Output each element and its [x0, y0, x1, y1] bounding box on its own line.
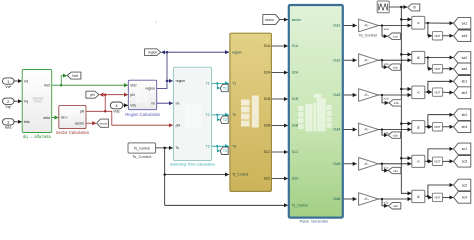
- svg-text:S2C: S2C: [264, 177, 271, 181]
- goto tag sa3: [454, 30, 471, 42]
- svg-text:-K-: -K-: [364, 162, 370, 166]
- wire comparator out stub row 6: [425, 195, 428, 197]
- goto tag sb3: [454, 87, 471, 99]
- svg-text:Switching Time Calculation: Switching Time Calculation: [170, 163, 215, 167]
- junction comparator out row 5: [427, 160, 429, 162]
- svg-text:sector: sector: [75, 121, 85, 125]
- wire gain to goto tag s2b: [382, 130, 388, 136]
- logical operator NOT row 3: [432, 88, 442, 96]
- wire comparator to goto sa1: [425, 22, 453, 24]
- wire comparator to goto sb1: [428, 81, 453, 92]
- junction Ts mid: [163, 173, 166, 176]
- svg-text:s1a: s1a: [393, 35, 398, 39]
- wire inport1 to dq: [14, 80, 22, 82]
- svg-text:T3: T3: [232, 144, 236, 148]
- wire comparator to goto sa2: [425, 57, 453, 59]
- wire comparator to NOT row 5: [428, 160, 432, 162]
- svg-text:Pulse_Generator: Pulse_Generator: [300, 220, 329, 223]
- junction carrier row 4: [400, 122, 403, 125]
- svg-text:nn: nn: [176, 101, 180, 105]
- svg-text:sc3: sc3: [462, 160, 468, 164]
- svg-text:sb1: sb1: [462, 80, 468, 84]
- wire gain output row 1: [378, 25, 411, 27]
- goto tag pN (mirrored): [86, 91, 99, 98]
- inport 1 Vd*: [3, 78, 15, 89]
- svg-text:-K-: -K-: [364, 197, 370, 201]
- svg-text:-K-: -K-: [364, 24, 370, 28]
- junction T1: [216, 82, 218, 84]
- wire S2C: [272, 178, 288, 180]
- wire sector to goto tag: [86, 122, 96, 124]
- svg-text:sb2: sb2: [462, 113, 468, 117]
- svg-text:sector: sector: [292, 18, 302, 22]
- svg-text:sc4: sc4: [462, 196, 468, 200]
- svg-text:Out3: Out3: [333, 93, 340, 97]
- svg-text:teta: teta: [5, 126, 12, 130]
- subsystem modulation (tan): [230, 33, 272, 191]
- svg-text:S1A: S1A: [292, 44, 299, 48]
- svg-text:Ts_Control: Ts_Control: [132, 154, 151, 159]
- junction comparator out row 4: [427, 126, 429, 128]
- svg-text:<: <: [417, 20, 420, 25]
- subsystem Switching Time Calculation: [170, 67, 215, 167]
- svg-text:Vref: Vref: [44, 83, 50, 87]
- wire gain to goto tag s1a: [382, 26, 388, 37]
- svg-text:S2A: S2A: [264, 71, 271, 75]
- relational operator row 5: [412, 155, 425, 167]
- junction T3: [216, 145, 218, 147]
- svg-text:s1a: s1a: [384, 27, 389, 31]
- wire carrier to comparator row 2: [401, 53, 411, 55]
- goto tag region (mirrored): [145, 49, 161, 56]
- goto tag sb2: [454, 109, 471, 121]
- svg-text:NOT: NOT: [434, 125, 440, 129]
- gain block -K- row 4: [359, 123, 379, 136]
- junction gain row 1: [381, 24, 383, 26]
- wire T1 to goto: [217, 83, 220, 88]
- wire NOT to goto sc3: [443, 160, 454, 162]
- junction gain row 4: [381, 128, 383, 130]
- svg-text:S1C: S1C: [264, 150, 271, 154]
- relational operator row 4: [412, 121, 425, 134]
- wire carrier to comparator row 3: [401, 88, 411, 90]
- wire comparator to NOT row 3: [428, 91, 432, 93]
- svg-text:s1b: s1b: [394, 101, 399, 105]
- svg-text:region: region: [176, 79, 186, 83]
- wire gain output row 5: [378, 163, 411, 165]
- svg-text:s2c: s2c: [393, 204, 398, 208]
- svg-text:T1: T1: [223, 86, 227, 90]
- svg-text:sector: sector: [265, 18, 275, 22]
- logical operator NOT row 6: [432, 193, 442, 201]
- wire inport2 to dq: [14, 100, 22, 102]
- svg-text:S2B: S2B: [264, 124, 271, 128]
- svg-text:T3: T3: [206, 144, 210, 148]
- goto tag T2: [220, 116, 228, 123]
- svg-text:Vdc: Vdc: [113, 110, 120, 114]
- junction region top: [166, 51, 169, 54]
- wire S1C: [272, 151, 288, 153]
- svg-text:deta: deta: [43, 116, 50, 120]
- svg-text:Vq: Vq: [24, 100, 28, 104]
- wire gain output row 3: [378, 94, 411, 96]
- svg-text:pN: pN: [176, 123, 181, 127]
- logical operator NOT row 1: [432, 32, 442, 40]
- junction gain row 3: [381, 94, 383, 96]
- junction pN top: [104, 93, 107, 96]
- goto tag s2c: [388, 203, 400, 209]
- svg-text:sa2: sa2: [462, 56, 468, 60]
- subsystem Region Calculation: [125, 80, 161, 117]
- wire gain to goto tag s1c: [382, 164, 388, 171]
- gain block -K- row 5: [359, 158, 379, 171]
- svg-text:T1: T1: [206, 82, 210, 86]
- svg-text:region: region: [232, 50, 242, 54]
- wire comparator out stub row 5: [425, 160, 428, 162]
- junction pN: [104, 110, 107, 113]
- junction triangle line top: [400, 6, 403, 9]
- wire Vdc: [123, 104, 128, 106]
- junction gain row 6: [381, 198, 383, 200]
- svg-text:Ts_Control: Ts_Control: [359, 34, 377, 38]
- wire Out3 to gain: [344, 94, 357, 96]
- wire Out5 to gain: [344, 163, 357, 165]
- junction comparator out row 6: [427, 195, 429, 197]
- inport 4 Vdc: [110, 102, 123, 114]
- svg-text:s2b: s2b: [393, 133, 398, 137]
- svg-text:dq → alfa beta: dq → alfa beta: [23, 134, 52, 139]
- svg-text:T2: T2: [206, 113, 210, 117]
- relational operator row 1: [412, 16, 425, 29]
- wire gain output row 6: [378, 198, 411, 200]
- goto tag sc3: [454, 156, 471, 168]
- junction carrier row 5: [400, 157, 403, 160]
- wire pN to switching time calc: [105, 111, 173, 125]
- wire comparator to goto sb2: [428, 115, 453, 127]
- svg-text:Ts_Control: Ts_Control: [292, 204, 308, 208]
- svg-text:<: <: [417, 90, 420, 95]
- goto tag sc2: [454, 179, 471, 191]
- svg-text:S2B: S2B: [292, 124, 299, 128]
- wire NOT to goto sc4: [443, 196, 454, 198]
- wire NOT to goto sa4: [443, 68, 454, 70]
- wire comparator to NOT row 4: [428, 126, 432, 128]
- svg-text:NOT: NOT: [434, 196, 440, 200]
- goto tag s1c: [388, 167, 400, 173]
- svg-text:Region Calculation: Region Calculation: [125, 112, 161, 117]
- svg-text:tri: tri: [413, 6, 416, 10]
- svg-text:sa4: sa4: [462, 67, 468, 71]
- svg-text:s2b: s2b: [384, 131, 389, 135]
- wire S2A: [272, 72, 288, 74]
- svg-text:T1: T1: [232, 82, 236, 86]
- wire S1A: [272, 45, 288, 47]
- junction comparator out row 3: [427, 91, 429, 93]
- wire Vref to goto tag: [61, 76, 67, 86]
- logical operator NOT row 2: [432, 65, 442, 73]
- wire Ts_Control to modulation block: [165, 174, 229, 176]
- wire pN to region calc: [105, 94, 128, 96]
- goto tag s1b: [389, 100, 401, 106]
- svg-text:s1c: s1c: [393, 169, 398, 173]
- svg-text:sc2: sc2: [462, 183, 468, 187]
- subsystem dq to alfa beta: [22, 70, 52, 140]
- svg-text:pN: pN: [90, 93, 95, 97]
- goto tag s2a: [388, 64, 400, 70]
- svg-text:s2a: s2a: [384, 62, 389, 66]
- wire nn: [157, 102, 173, 104]
- goto tag sa4: [454, 63, 471, 75]
- wire comparator to NOT row 2: [428, 58, 432, 69]
- wire comparator out stub row 3: [425, 91, 428, 93]
- relational operator row 6: [412, 190, 425, 202]
- wire comparator out stub row 4: [425, 126, 428, 128]
- source block Ts_Control: [128, 143, 156, 159]
- wire comparator to NOT row 6: [428, 196, 432, 197]
- junction Ts: [163, 147, 166, 150]
- svg-text:s1c: s1c: [384, 165, 389, 169]
- wire comparator to NOT row 1: [428, 23, 432, 36]
- wire gain to goto tag s1b: [382, 95, 389, 103]
- wire Out2 to gain: [344, 59, 357, 61]
- gain block -K- row 6: [359, 193, 379, 206]
- wire pN rise: [104, 95, 106, 112]
- svg-text:s2a: s2a: [393, 65, 398, 69]
- wire NOT to goto sa3: [443, 35, 454, 37]
- wire Ts to switching time calc: [156, 147, 173, 149]
- svg-text:<: <: [417, 159, 420, 164]
- svg-text:Ts: Ts: [176, 146, 180, 150]
- goto tag sector: [97, 119, 109, 127]
- wire T2 to goto: [217, 115, 220, 120]
- svg-text:Vref: Vref: [72, 74, 78, 78]
- logical operator NOT row 4: [432, 123, 442, 131]
- goto tag sc4: [454, 192, 471, 204]
- logical operator NOT row 5: [432, 157, 442, 165]
- svg-text:T2: T2: [223, 118, 227, 122]
- svg-text:NOT: NOT: [434, 67, 440, 71]
- svg-text:sc1: sc1: [462, 147, 468, 151]
- svg-text:Out6: Out6: [333, 197, 340, 201]
- wire region output: [157, 52, 167, 88]
- svg-text:Vdc: Vdc: [130, 104, 136, 108]
- junction carrier row 2: [400, 53, 403, 56]
- subsystem Sector Calculation: [56, 105, 90, 135]
- wire T3 to goto: [217, 146, 220, 151]
- wire NOT to goto sb4: [443, 126, 454, 128]
- goto tag s1a: [388, 33, 400, 39]
- goto tag sb1: [454, 76, 471, 88]
- junction carrier row 3: [400, 88, 403, 91]
- wire T2: [212, 114, 229, 116]
- svg-text:S1B: S1B: [292, 97, 299, 101]
- svg-text:NOT: NOT: [434, 90, 440, 94]
- wire region to switching time calc: [167, 80, 173, 82]
- inport 3 teta: [3, 119, 15, 130]
- svg-text:S1B: S1B: [264, 97, 271, 101]
- junction gain row 2: [381, 59, 383, 61]
- wire T1: [212, 82, 229, 84]
- wire comparator to goto sc2: [428, 185, 453, 196]
- svg-text:S1C: S1C: [292, 150, 299, 154]
- wire triangle wave to tri tag: [389, 6, 407, 8]
- wire deta: [52, 117, 59, 119]
- source block triangle wave generator: [377, 1, 389, 13]
- wire region to modulation block: [167, 51, 229, 53]
- wire gain to goto tag s2c: [382, 199, 388, 206]
- wire T3: [212, 145, 229, 147]
- svg-text:nn: nn: [151, 101, 155, 105]
- wire Ts drop: [164, 148, 166, 205]
- wire inport3 to dq: [14, 121, 22, 123]
- from tag sector: [263, 15, 280, 25]
- subsystem pulses (green): [289, 5, 343, 218]
- wire Ts_Control to pulses block: [165, 204, 288, 206]
- wire Out1 to gain: [344, 25, 357, 27]
- wire gain output row 4: [378, 129, 411, 131]
- relational operator row 2: [412, 51, 425, 63]
- junction gain row 5: [381, 163, 383, 165]
- inport 2 Vq*: [3, 98, 15, 109]
- wire S1B: [272, 98, 288, 100]
- speck: [155, 21, 157, 23]
- junction comparator out row 1: [427, 22, 429, 24]
- wire Vref: [52, 84, 128, 86]
- svg-text:Out4: Out4: [333, 128, 340, 132]
- wire region to goto tag: [161, 51, 167, 53]
- svg-text:S2C: S2C: [292, 177, 299, 181]
- goto tag s2b: [388, 132, 400, 138]
- goto tag sb4: [454, 121, 471, 133]
- wire comparator to goto sc1: [428, 149, 453, 161]
- wire carrier to comparator row 4: [401, 123, 411, 125]
- wire Out6 to gain: [344, 198, 357, 200]
- svg-text:Ts_Control: Ts_Control: [232, 173, 248, 177]
- goto tag sc1: [454, 143, 471, 155]
- svg-text:NOT: NOT: [434, 34, 440, 38]
- goto tag Vref: [67, 72, 81, 79]
- wire Out4 to gain: [344, 129, 357, 131]
- svg-text:NOT: NOT: [434, 160, 440, 164]
- wire pN to goto tag: [100, 94, 106, 96]
- wire gain output row 2: [378, 59, 411, 61]
- goto tag sa2: [454, 52, 471, 64]
- goto tag T3: [220, 147, 228, 154]
- svg-text:Sector Calculation: Sector Calculation: [56, 130, 90, 135]
- svg-text:-K-: -K-: [364, 93, 370, 97]
- goto tag T1: [220, 84, 228, 91]
- svg-text:region: region: [145, 87, 155, 91]
- svg-text:sector: sector: [100, 122, 108, 126]
- svg-text:s2c: s2c: [384, 201, 389, 205]
- svg-text:Vref: Vref: [130, 83, 136, 87]
- svg-text:Out5: Out5: [333, 162, 340, 166]
- svg-text:sa1: sa1: [462, 22, 468, 26]
- svg-text:Vd: Vd: [24, 79, 28, 83]
- svg-text:S1A: S1A: [264, 44, 271, 48]
- goto tag sa1: [454, 17, 471, 29]
- goto tag tri: [408, 4, 420, 11]
- svg-text:sa3: sa3: [462, 34, 468, 38]
- svg-text:sb3: sb3: [462, 91, 468, 95]
- junction T2: [216, 114, 218, 116]
- svg-text:Vd*: Vd*: [5, 85, 12, 89]
- svg-text:sb4: sb4: [462, 125, 468, 129]
- gain block -K- row 2: [359, 54, 379, 67]
- wire triangle carrier vertical: [401, 7, 411, 193]
- svg-text:Vq*: Vq*: [5, 105, 12, 109]
- svg-text:S2A: S2A: [292, 71, 299, 75]
- junction carrier row 1: [400, 18, 403, 21]
- svg-text:pN: pN: [130, 93, 135, 97]
- wire carrier to comparator row 1: [401, 18, 411, 20]
- svg-text:region: region: [148, 51, 157, 55]
- wire sector to pulses: [280, 19, 288, 21]
- svg-text:Out1: Out1: [333, 24, 340, 28]
- svg-text:pN: pN: [80, 110, 85, 114]
- junction region mid: [166, 80, 169, 83]
- svg-text:-K-: -K-: [364, 128, 370, 132]
- svg-text:-K-: -K-: [364, 58, 370, 62]
- relational operator row 3: [412, 86, 425, 99]
- svg-text:s1b: s1b: [384, 97, 389, 101]
- svg-text:teta: teta: [24, 120, 30, 124]
- svg-text:T2: T2: [232, 113, 236, 117]
- svg-text:Out2: Out2: [333, 58, 340, 62]
- svg-text:Ts_Control: Ts_Control: [134, 146, 150, 150]
- gain block -K- row 3: [359, 89, 379, 102]
- wire pN out: [86, 110, 105, 112]
- wire gain to goto tag s2a: [382, 60, 388, 67]
- wire NOT to goto sb3: [443, 91, 454, 94]
- junction Vref branch: [60, 84, 63, 87]
- gain block -K- row 1: [359, 19, 379, 38]
- wire carrier to comparator row 5: [401, 157, 411, 159]
- junction comparator out row 2: [427, 56, 429, 58]
- wire S2B: [272, 125, 288, 127]
- svg-text:T3: T3: [223, 149, 227, 153]
